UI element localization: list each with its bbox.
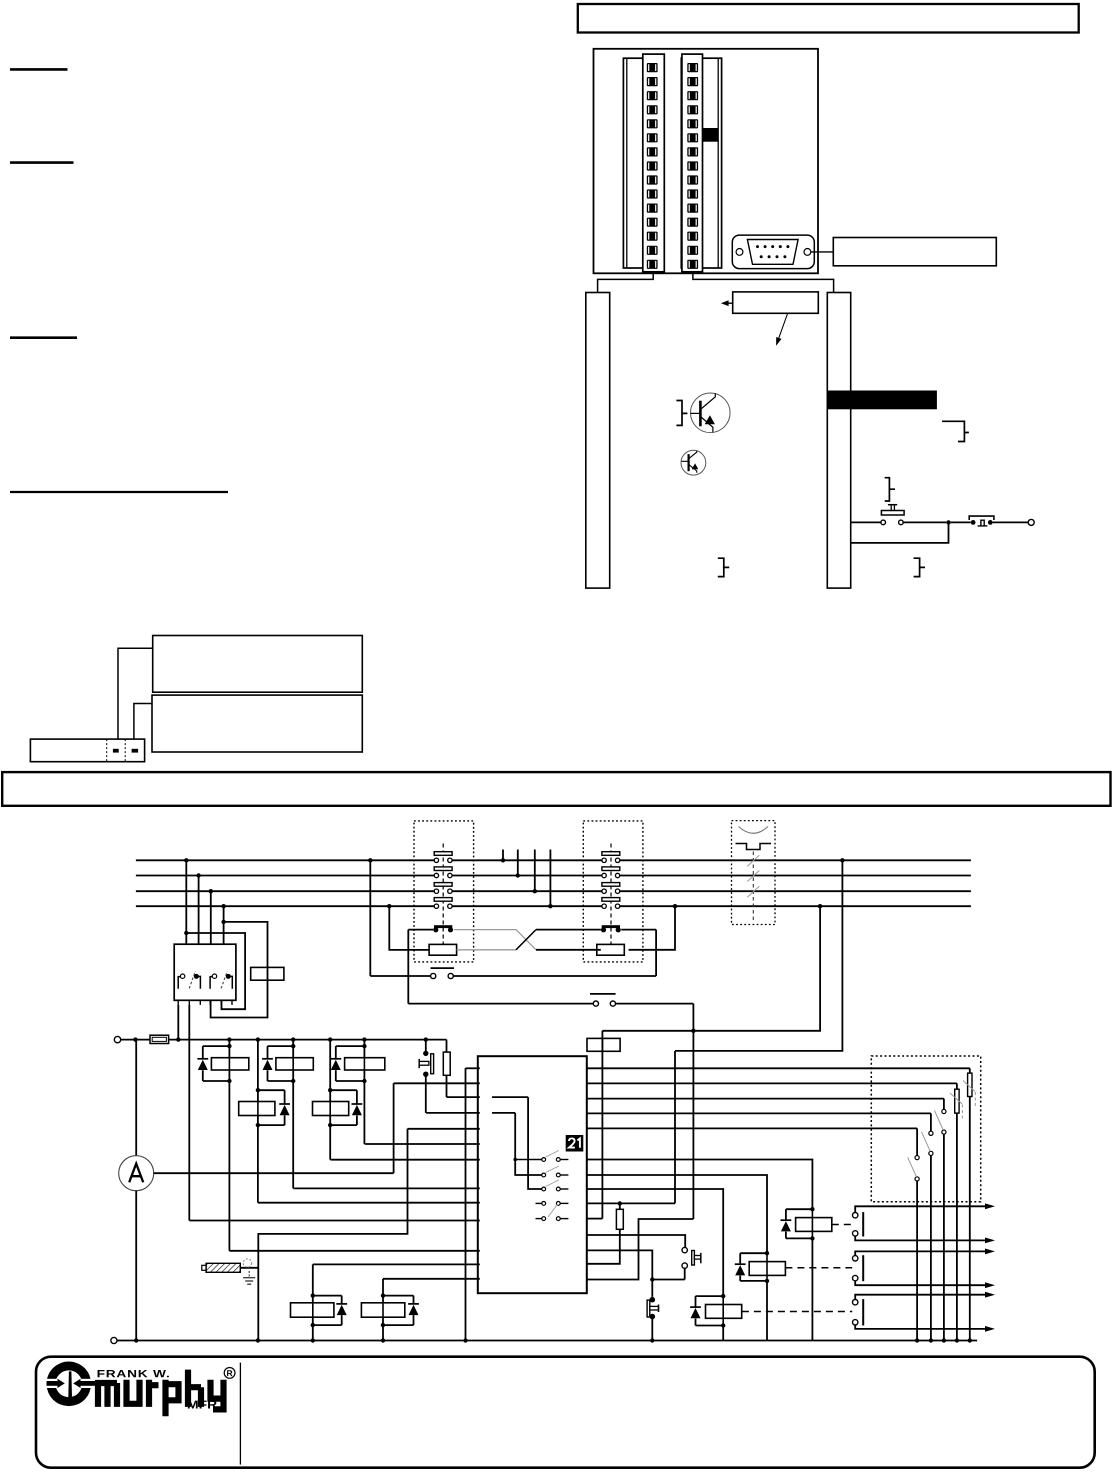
terminal 4 (right strip) <box>687 105 698 114</box>
node bottom bus <box>968 1338 972 1342</box>
node PB3/bus <box>650 1338 654 1342</box>
stub wire to engine harness <box>517 850 519 876</box>
fuse F3 <box>619 1203 621 1209</box>
wire row4 stub <box>587 1202 675 1204</box>
wire J2 to PB2 bottom <box>652 1268 684 1279</box>
TB-left link line <box>442 844 444 945</box>
terminal 11 (right strip) <box>687 204 698 213</box>
wire PB3 to bottom bus <box>651 1317 653 1341</box>
dotted protection box <box>871 1056 980 1202</box>
note box 1 <box>153 636 363 693</box>
contact pair P2 <box>590 993 616 995</box>
registered mark <box>224 1368 235 1379</box>
bracket B5 <box>914 558 925 576</box>
pin wire R-y1128 <box>587 1127 917 1129</box>
node bottom bus <box>942 1338 946 1342</box>
node bypass2 <box>221 920 225 924</box>
left strip plug-in connector <box>643 54 665 272</box>
right legend strip <box>827 293 850 589</box>
terminal 3 (right strip) <box>687 91 698 100</box>
TVS blade 1 <box>747 855 759 866</box>
dashed link K6 to CT1 <box>832 1224 852 1226</box>
relay K4 with flyback diode <box>257 1040 259 1126</box>
diode D-K9 <box>336 1303 347 1305</box>
node K4 tap <box>256 1037 260 1041</box>
diode D-K2 <box>262 1058 273 1060</box>
gray crossover diagonal <box>516 930 536 950</box>
wire left riser to P2 <box>407 930 409 1004</box>
fuse F1 <box>150 1035 169 1043</box>
wire ammeter to bottom bus <box>135 1191 137 1341</box>
right strip plug-in connector <box>682 54 703 272</box>
dashed link K8 to CT3 <box>742 1311 852 1313</box>
CT2 arrow top <box>985 1249 995 1255</box>
wire top link x820 to x602 <box>602 906 820 1031</box>
stub wire to engine harness <box>534 850 536 892</box>
wire K4 column down <box>257 1125 259 1203</box>
limit switch S1 <box>969 516 994 520</box>
wire left connector to left legend strip <box>598 272 654 293</box>
wire note box 2 to part strip <box>134 704 152 740</box>
wire down to P1 right <box>655 930 657 976</box>
node bottom bus <box>929 1338 933 1342</box>
Q1 base bar <box>699 401 702 427</box>
terminal 13 (right strip) <box>687 232 698 241</box>
PB-A plunger <box>431 1054 434 1074</box>
left legend strip <box>586 293 610 589</box>
wire pole1 to bus <box>177 1005 179 1040</box>
DB9 screw hole left <box>736 249 743 256</box>
TB-right jumper on line y=891.2 <box>602 883 620 887</box>
wire drop pole1 <box>185 860 187 944</box>
wire PB1 to S1 <box>903 521 946 523</box>
wire y1235 to PB2 top <box>587 1235 685 1248</box>
dotted box TB-right <box>583 821 643 962</box>
node K2 tap <box>291 1037 295 1041</box>
terminal 14 (left strip) <box>647 246 658 255</box>
coil K6 <box>796 1218 832 1232</box>
wire right connector to right legend strip <box>693 272 834 293</box>
relay K1 with flyback diode <box>228 1040 230 1081</box>
bus line 3 <box>136 890 434 892</box>
relay K5 with flyback diode <box>329 1040 331 1126</box>
Murphy logo disc <box>47 1362 92 1407</box>
wire K7 to bottom bus <box>766 1281 768 1341</box>
coil K5 <box>313 1102 349 1116</box>
label box (DB9 callout) <box>833 238 996 266</box>
TVS hat symbol <box>736 844 772 850</box>
node line1/x842 <box>840 858 844 862</box>
wire row5 stub <box>587 1218 603 1220</box>
PB3 handle bar <box>658 1305 660 1313</box>
DB9 pins <box>756 245 759 248</box>
wire ammeter tap <box>154 1172 394 1174</box>
diode D-K3 <box>330 1058 341 1060</box>
wire TB-left contact feed <box>408 929 433 931</box>
coil K10 <box>361 1303 404 1317</box>
pushbutton PB2 (open contacts) <box>682 1247 687 1252</box>
coil K9 <box>291 1303 334 1317</box>
wire column x602 <box>601 1031 603 1219</box>
pin wire R-y1113 <box>587 1112 931 1114</box>
terminal 7 (left strip) <box>647 147 658 156</box>
wire bypass2 loop <box>211 922 268 1018</box>
terminal 13 (left strip) <box>647 232 658 241</box>
TVS dashed link <box>752 852 754 922</box>
node x693/top link <box>691 1029 695 1033</box>
internal wire to contact rows 1-2 <box>515 1113 542 1175</box>
node bottom bus <box>955 1338 959 1342</box>
switch column E <box>916 1128 918 1155</box>
pin wire R-y1083 <box>587 1082 957 1084</box>
fused disconnect column A <box>969 1068 971 1073</box>
TB-left aux contact <box>434 925 452 928</box>
coil K4 <box>239 1102 275 1116</box>
pin wire y1203 (K4) <box>258 1202 480 1204</box>
terminal 4 (left strip) <box>647 105 658 114</box>
diode D-K4 <box>279 1103 290 1105</box>
TB-left jumper on line y=906.2 <box>434 898 452 902</box>
wire note box 1 to part strip <box>118 648 153 739</box>
CT1 arrow top <box>985 1203 995 1209</box>
terminal 2 (right strip) <box>687 77 698 86</box>
node line4/coil-right <box>673 904 677 908</box>
pin wire y1264 (K9) <box>313 1263 480 1265</box>
TB-right jumper on line y=875.5 <box>602 867 620 871</box>
PB2 plunger <box>692 1251 695 1266</box>
PB2 handle bar <box>700 1253 702 1263</box>
wire y1250 to node J2 <box>587 1250 653 1279</box>
dash mark 1 <box>113 749 119 753</box>
pin wire y1129 (ground node) <box>408 1128 480 1130</box>
stub wire to engine harness <box>549 850 551 907</box>
TB-left jumper on line y=875.5 <box>434 867 452 871</box>
terminal 5 (right strip) <box>687 119 698 128</box>
Q1 base lead <box>691 412 701 414</box>
output contact CT2 <box>853 1256 858 1261</box>
contact row 2 <box>542 1173 546 1177</box>
diode D-K1 <box>197 1058 208 1060</box>
leader line down <box>779 314 788 339</box>
coil K3 <box>345 1058 385 1070</box>
wire line4 to TB-left coil <box>389 906 429 950</box>
node pole1/bus <box>176 1037 180 1041</box>
Q2 emitter lead <box>689 464 697 472</box>
wire J1 to S1 <box>951 521 971 523</box>
black crossover diagonal <box>516 930 536 950</box>
dash mark 2 <box>132 749 139 753</box>
terminal 5 (left strip) <box>647 119 658 128</box>
bottom bus <box>117 1340 977 1342</box>
CT3 arrow bottom <box>985 1326 995 1332</box>
stub wire to engine harness <box>502 850 504 861</box>
pin wire y1160 (K5) <box>332 1159 480 1161</box>
contact blade (gray) <box>546 1166 559 1173</box>
node K3 tap <box>362 1037 366 1041</box>
logo arrow left <box>47 1381 58 1386</box>
node bus3/breaker <box>209 889 213 893</box>
note box 2 <box>152 695 362 752</box>
terminal 7 (right strip) <box>687 147 698 156</box>
pin wire y1083 (ammeter) <box>394 1082 480 1084</box>
breaker pole contacts at 210.1 <box>210 977 212 989</box>
wire bus start <box>121 1039 150 1041</box>
wire probe to ground column <box>240 1267 258 1269</box>
heading underline 4 <box>10 491 228 493</box>
breaker pole contacts at 178.2 <box>178 977 180 989</box>
wire PB-A bottom drop <box>425 1074 427 1113</box>
transistor Q2 <box>681 450 706 475</box>
terminal 6 (left strip) <box>647 133 658 142</box>
TB-right link line <box>610 844 612 945</box>
wire K1 column down <box>228 1081 230 1251</box>
pin wire y1220 (pole2) <box>189 1220 480 1222</box>
relay K2 with flyback diode <box>292 1040 294 1081</box>
contact row 4 <box>542 1202 546 1206</box>
wire X to TB-right coil <box>536 949 601 951</box>
wire ammeter column up <box>393 1083 395 1173</box>
wire line4 to TB-right coil <box>629 906 675 950</box>
wire riser x465 to bottom bus <box>465 1068 467 1340</box>
diode D-K8 <box>690 1306 701 1308</box>
contact row 5 <box>542 1217 546 1221</box>
terminal 12 (right strip) <box>687 218 698 227</box>
coil K8 <box>706 1305 742 1319</box>
terminal 9 (right strip) <box>687 175 698 184</box>
pushbutton PB-A <box>425 1040 427 1054</box>
node line4/x820 <box>818 904 822 908</box>
part number strip <box>30 739 144 762</box>
pin wire R-y1099 <box>587 1098 944 1100</box>
bus input terminal circle <box>114 1036 120 1042</box>
CT2 arrow bottom <box>985 1282 995 1288</box>
bracket B3 <box>885 478 895 501</box>
terminal 10 (left strip) <box>647 189 658 198</box>
logo needle <box>68 1371 72 1397</box>
node bus1/breaker <box>184 858 188 862</box>
PB-A handle stem <box>419 1061 429 1065</box>
node ammeter/bus <box>134 1338 138 1342</box>
wire drop pole3 <box>210 891 212 944</box>
logo arrow right <box>73 1379 80 1388</box>
terminal 2 (left strip) <box>647 77 658 86</box>
pushbutton PB1 (panel) <box>888 504 897 506</box>
relay K3 with flyback diode <box>363 1040 365 1081</box>
callout box <box>733 292 819 313</box>
left strip inner line <box>626 58 628 268</box>
ground symbol <box>243 1259 251 1267</box>
wire K3 column down <box>363 1081 365 1144</box>
bottom border panel <box>36 1357 1095 1468</box>
pin wire y1279 (K10) <box>383 1278 480 1280</box>
PB1 contact left <box>881 520 886 525</box>
heading underline 1 <box>10 68 68 71</box>
bracket B1 (transistor base) <box>676 401 687 426</box>
TB-left coil <box>429 944 457 955</box>
bus line 1 <box>136 859 434 861</box>
terminal 3 (left strip) <box>647 91 658 100</box>
CT1 arrow bottom <box>985 1238 995 1244</box>
pin wire y1144 (K3) <box>365 1143 479 1145</box>
wire DB9 to label box <box>811 251 833 253</box>
part strip divider 1 <box>106 739 108 762</box>
relay K7 with flyback diode <box>765 1251 769 1255</box>
TB-right jumper on line y=860.3 <box>602 852 620 856</box>
pushbutton PB3 (closed contacts) <box>650 1297 656 1303</box>
right terminal strip body <box>681 58 721 268</box>
leader arrowhead (down) <box>776 337 781 346</box>
Q1 emitter lead <box>700 417 713 433</box>
wire row3 to K8 <box>587 1189 723 1296</box>
pin wire y1188 (K2) <box>294 1187 479 1189</box>
node bus4/breaker <box>221 904 225 908</box>
wire ground node loop <box>258 1129 407 1341</box>
wire pole2 long drop <box>188 1005 190 1221</box>
node ground/bus <box>256 1338 260 1342</box>
heading underline 3 <box>10 336 77 339</box>
wire K6 to bottom bus <box>811 1238 813 1340</box>
label 21 <box>566 1135 584 1152</box>
relay K10 with flyback diode <box>382 1279 384 1341</box>
left terminal strip body <box>623 58 663 268</box>
terminal 12 (left strip) <box>647 218 658 227</box>
wire K5 column down <box>329 1125 331 1160</box>
wire line1 down to P1 <box>369 860 371 976</box>
PB1 contact right <box>899 520 904 525</box>
TVS blade 3 <box>747 886 759 897</box>
wire K8 to bottom bus <box>722 1326 724 1341</box>
wire J2 down to PB3 <box>651 1280 653 1297</box>
wire X to TB-right contact <box>536 929 601 931</box>
bottom bus terminal circle <box>111 1337 117 1343</box>
output contact CT3 <box>853 1300 858 1305</box>
switch column C <box>943 1099 945 1110</box>
pin wire R-y1068 <box>587 1067 970 1069</box>
terminal 15 (right strip) <box>687 260 698 269</box>
wire row1 to K6 <box>587 1160 813 1210</box>
wire TB-right contact out <box>621 929 656 931</box>
wire column x675 <box>674 1051 676 1204</box>
switch column D <box>930 1113 932 1131</box>
contact pair P1 <box>431 967 455 969</box>
wire drop pole2 <box>198 876 200 945</box>
pin wire y1097 inner <box>492 1096 528 1098</box>
CT3 arrow top <box>985 1292 995 1298</box>
callout arrowhead (left) <box>721 300 729 306</box>
svg-text:R: R <box>227 1368 233 1378</box>
output contact CT1 <box>853 1213 858 1218</box>
right strip inner line <box>717 58 719 268</box>
wire top link x842 to x675 <box>675 860 842 1051</box>
TB-left jumper on line y=860.3 <box>434 852 452 856</box>
wire row2 to K7 <box>587 1175 767 1253</box>
relay K8 with flyback diode <box>721 1294 725 1298</box>
terminal 10 (right strip) <box>687 189 698 198</box>
callout arrow shaft <box>727 302 733 304</box>
node F3 tap <box>618 1201 622 1205</box>
Q1 emitter arrow <box>705 415 715 424</box>
fused disconnect column B <box>956 1083 958 1089</box>
terminal marker box TB2 <box>587 1038 620 1051</box>
pin wire y1068 (common riser) <box>466 1067 480 1069</box>
diode D-K5 <box>352 1103 363 1105</box>
pin wire y1113 outer <box>426 1112 480 1114</box>
svg-text:MFR.: MFR. <box>187 1400 221 1412</box>
terminal 11 (left strip) <box>647 204 658 213</box>
Q2 emitter arrow <box>692 463 699 469</box>
TVS blade 2 <box>747 871 759 882</box>
bus line 4 <box>136 905 434 907</box>
Q1 collector lead <box>700 393 715 409</box>
DB9 serial connector <box>732 235 814 269</box>
title box (empty) <box>578 4 1079 33</box>
pin wire y1097 outer <box>447 1096 480 1098</box>
gray wire contact to X <box>454 929 516 931</box>
node J2 <box>650 1277 654 1281</box>
wire column x693 <box>692 1004 694 1219</box>
pin wire y1251 (K1) <box>229 1250 479 1252</box>
transistor Q1 <box>691 393 731 433</box>
PB3 plunger <box>647 1300 650 1317</box>
terminal 8 (left strip) <box>647 161 658 170</box>
coil K7 <box>749 1262 785 1276</box>
device outline box <box>594 49 819 273</box>
terminal 14 (right strip) <box>687 246 698 255</box>
terminal 15 (left strip) <box>647 260 658 269</box>
contact blade rows4-5 <box>548 1205 557 1218</box>
heading underline 2 <box>10 161 74 164</box>
PB-A handle bar <box>418 1059 420 1068</box>
dotted TVS box <box>732 821 776 925</box>
DB9 screw hole right <box>804 249 811 256</box>
breaker bottom ticks <box>177 1000 179 1005</box>
wire K2 column down <box>292 1081 294 1188</box>
row1 left stub <box>515 1159 542 1161</box>
node K5 tap <box>328 1037 332 1041</box>
contact blade (gray) <box>546 1151 559 1158</box>
relay K6 with flyback diode <box>810 1207 814 1211</box>
Q2 base bar <box>687 454 689 471</box>
black position marker on right strip <box>703 128 719 142</box>
diode D-K10 <box>408 1303 419 1305</box>
wire drop pole4 <box>223 906 225 944</box>
relay K9 with flyback diode <box>312 1264 314 1340</box>
terminal 1 (right strip) <box>687 63 698 72</box>
TVS arc symbol <box>739 827 769 834</box>
gray wire coil to X <box>457 949 516 951</box>
TB-left jumper on line y=891.2 <box>434 883 452 887</box>
ammeter A <box>135 1040 137 1156</box>
wire bypass1 loop <box>186 933 245 1009</box>
diode D-K7 <box>735 1263 746 1265</box>
node riser/bus <box>463 1338 467 1342</box>
bracket B4 <box>718 558 729 576</box>
wire pin y1279 loop up to x693 <box>587 1219 694 1280</box>
node bypass1 <box>184 931 188 935</box>
TB-right aux contact <box>602 925 620 928</box>
node K1 tap <box>227 1037 231 1041</box>
diode D-K6 <box>781 1219 792 1221</box>
coil K1 <box>211 1058 248 1070</box>
TB-right coil <box>597 944 625 955</box>
terminal 8 (right strip) <box>687 161 698 170</box>
panel divider <box>239 1363 241 1465</box>
wire F2 down <box>446 1075 448 1097</box>
PB3 handle stem <box>650 1306 659 1310</box>
fuse F2 <box>446 1040 448 1053</box>
part strip divider 2 <box>124 739 126 762</box>
node line4/coil-left <box>387 904 391 908</box>
